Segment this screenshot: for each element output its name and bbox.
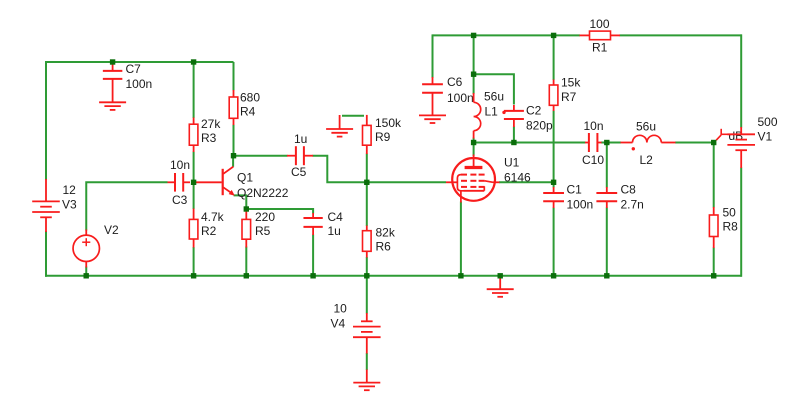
wire C2 branch	[474, 74, 514, 104]
svg-text:50: 50	[723, 206, 737, 220]
svg-text:R1: R1	[592, 41, 608, 55]
wire C10 to L2 node	[601, 142, 607, 144]
capacitor C4	[303, 213, 322, 235]
wire base node to R2	[193, 182, 195, 209]
svg-text:L2: L2	[640, 153, 654, 167]
node bus ground	[498, 273, 503, 278]
capacitor C10	[585, 133, 602, 152]
node bus R5	[244, 273, 249, 278]
svg-text:C10: C10	[582, 153, 604, 167]
wire R9 bottom	[366, 154, 368, 183]
wire R8 to bus	[713, 248, 715, 276]
svg-text:C2: C2	[526, 104, 542, 118]
svg-text:C3: C3	[172, 193, 188, 207]
wire V4 to ground	[366, 353, 368, 370]
ground C6	[419, 93, 446, 123]
svg-text:150k: 150k	[375, 116, 402, 130]
wire R2 to bus	[193, 247, 195, 276]
resistor R6	[363, 226, 372, 258]
svg-text:10: 10	[334, 302, 348, 316]
capacitor C2	[504, 105, 524, 127]
capacitor C3	[168, 173, 191, 192]
svg-text:R8: R8	[723, 220, 739, 234]
node screen-C1	[551, 180, 556, 185]
vacuum tube U1	[446, 155, 500, 203]
svg-text:V2: V2	[104, 223, 119, 237]
wire R7 to screen node	[553, 111, 555, 183]
node bus C8	[604, 273, 609, 278]
resistor R8	[709, 207, 718, 248]
resistor R1	[580, 31, 621, 40]
wire C4 to bus	[312, 235, 314, 276]
capacitor C6	[422, 77, 443, 93]
svg-text:2.7n: 2.7n	[621, 198, 644, 212]
wire anode row C10	[474, 142, 586, 144]
svg-text:R9: R9	[375, 130, 391, 144]
svg-text:C4: C4	[328, 210, 344, 224]
svg-text:220: 220	[255, 210, 275, 224]
svg-text:100: 100	[590, 17, 610, 31]
transistor Q1	[194, 167, 235, 196]
svg-text:27k: 27k	[201, 117, 221, 131]
battery V3	[32, 179, 60, 232]
svg-text:R4: R4	[240, 105, 256, 119]
node anode	[471, 140, 476, 145]
wire bus to V4	[366, 276, 368, 314]
wire top-left rail	[46, 61, 234, 63]
svg-text:820p: 820p	[526, 119, 553, 133]
svg-text:U1: U1	[504, 156, 520, 170]
svg-text:100n: 100n	[447, 91, 474, 105]
wire emitter to R5 node	[234, 195, 247, 209]
wire C8 to bus	[606, 208, 608, 276]
node R3 top	[191, 59, 196, 64]
svg-text:R5: R5	[255, 224, 271, 238]
wire top rail right	[620, 34, 742, 36]
wire C1 top	[553, 182, 555, 187]
capacitor C5	[287, 146, 313, 165]
node bus R2	[191, 273, 196, 278]
node bus V2	[84, 273, 89, 278]
capacitor C7	[103, 62, 123, 79]
svg-text:R2: R2	[201, 224, 217, 238]
ground bus	[487, 277, 514, 297]
svg-text:6146: 6146	[504, 171, 531, 185]
wire left rail upper	[45, 61, 47, 180]
inductor L1	[474, 93, 506, 139]
svg-text:1u: 1u	[328, 224, 341, 238]
wire grid node to R6	[366, 182, 368, 226]
svg-text:L1: L1	[485, 105, 499, 119]
svg-text:R6: R6	[376, 240, 392, 254]
svg-text:V4: V4	[331, 317, 346, 331]
wire collector	[232, 156, 234, 167]
wire R3 top lead	[193, 62, 195, 118]
svg-text:V3: V3	[62, 198, 77, 212]
svg-text:C1: C1	[567, 183, 583, 197]
resistor R7	[549, 80, 558, 112]
resistor R4	[229, 90, 238, 125]
node bus R8	[711, 273, 716, 278]
svg-text:V1: V1	[758, 130, 773, 144]
svg-text:C5: C5	[291, 165, 307, 179]
node anode top rail	[471, 33, 476, 38]
wire C8 top	[606, 143, 608, 188]
wire output node to R8	[713, 143, 715, 208]
node bus C4	[310, 273, 315, 278]
svg-text:4.7k: 4.7k	[201, 210, 225, 224]
wire V2 to bus	[85, 267, 87, 276]
resistor R9	[363, 115, 372, 154]
wire R5 node to C4	[246, 209, 313, 214]
svg-text:1u: 1u	[294, 132, 307, 146]
node bus R6-V4	[364, 273, 369, 278]
node base	[191, 180, 196, 185]
wire R5 to bus	[245, 247, 247, 276]
node R7 top rail	[551, 33, 556, 38]
resistor R2	[189, 209, 198, 248]
svg-text:R3: R3	[201, 131, 217, 145]
node output	[711, 140, 716, 145]
wire V1 top	[740, 34, 742, 127]
svg-text:500: 500	[758, 115, 778, 129]
svg-text:R7: R7	[561, 90, 577, 104]
resistor R5	[242, 209, 251, 248]
wire anode node to tube	[473, 143, 475, 157]
svg-text:12: 12	[63, 183, 77, 197]
svg-text:100n: 100n	[567, 198, 594, 212]
svg-text:C7: C7	[126, 62, 142, 76]
wire V1 to bus	[740, 168, 742, 277]
wire L2 to output node	[675, 142, 714, 144]
svg-text:10n: 10n	[170, 158, 190, 172]
node collector-C5	[231, 153, 236, 158]
node bus C1	[551, 273, 556, 278]
svg-text:15k: 15k	[561, 76, 581, 90]
ground V4	[353, 370, 380, 391]
wire C2 to anode wire	[513, 127, 515, 143]
battery V4	[353, 313, 381, 354]
wire top rail left	[433, 34, 581, 36]
wire R9 top to ground	[342, 115, 364, 117]
wire R7 top lead	[553, 35, 555, 80]
svg-text:C6: C6	[447, 75, 463, 89]
svg-text:10n: 10n	[584, 119, 604, 133]
wire node to L1	[473, 74, 475, 94]
svg-text:C8: C8	[621, 183, 637, 197]
node emitter-R5	[244, 206, 249, 211]
wire R3 to base node	[193, 152, 195, 183]
source V2	[73, 230, 99, 268]
node L1-C2	[471, 72, 476, 77]
wire C1 to bus	[553, 208, 555, 276]
inductor L2	[621, 135, 676, 150]
ground R9	[326, 115, 353, 137]
wire anode top	[473, 35, 475, 74]
capacitor C8	[596, 187, 617, 208]
battery V1	[727, 127, 755, 168]
svg-text:56u: 56u	[636, 120, 656, 134]
svg-text:680: 680	[240, 91, 260, 105]
wire R4 to collector node	[233, 125, 235, 156]
wire collector node to C5	[234, 155, 288, 157]
wire R6 to bus	[366, 257, 368, 276]
capacitor C1	[543, 187, 564, 208]
ground C7	[99, 79, 126, 110]
wire C5 to grid node	[313, 156, 367, 183]
wire V2 to C3	[86, 182, 167, 230]
wire tube g2 to C1 node	[499, 181, 554, 183]
wire cathode to bus	[460, 202, 462, 276]
wire R4 top lead	[233, 62, 235, 91]
svg-text:82k: 82k	[376, 226, 396, 240]
node grid	[364, 180, 369, 185]
wire L2 left lead	[607, 142, 621, 144]
wire grid node to tube	[367, 181, 446, 183]
probe dB marker	[716, 129, 736, 140]
svg-text:56u: 56u	[484, 90, 504, 104]
svg-text:Q1: Q1	[237, 171, 253, 185]
resistor R3	[189, 118, 198, 153]
svg-text:100n: 100n	[126, 77, 153, 91]
wire left rail lower	[45, 231, 47, 277]
wire bottom bus	[45, 275, 742, 277]
svg-text:Q2N2222: Q2N2222	[237, 186, 289, 200]
node C2 bottom	[511, 140, 516, 145]
node bus cathode	[458, 273, 463, 278]
wire C6 drop	[432, 34, 434, 78]
wire L1 to anode node	[473, 138, 475, 143]
node C10-C8-L2	[604, 140, 609, 145]
node C7 top	[110, 59, 115, 64]
